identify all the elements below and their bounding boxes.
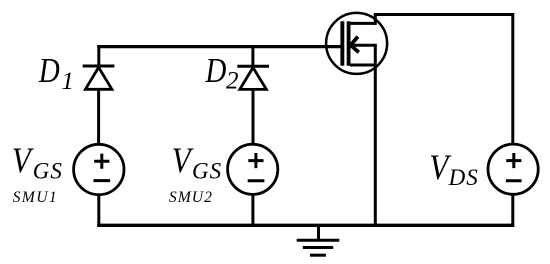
ground bbox=[297, 226, 340, 255]
wire: D1 top branch bbox=[97, 45, 100, 67]
voltage source VGS SMU1 bbox=[74, 144, 124, 194]
wire: MOSFET source vertical bbox=[374, 45, 377, 226]
voltage source VGS SMU2 bbox=[228, 144, 278, 194]
svg-text:GS: GS bbox=[192, 158, 222, 183]
wire: top drain rail bbox=[374, 13, 513, 16]
svg-text:SMU2: SMU2 bbox=[169, 189, 213, 206]
M1 gate plate bbox=[340, 21, 344, 65]
diode D1 bbox=[83, 66, 115, 89]
wire: VDS to bottom rail bbox=[511, 194, 514, 226]
wire: D2 to source SMU2 bbox=[252, 89, 255, 145]
voltage source VDS bbox=[488, 144, 538, 194]
M1 body circle bbox=[326, 13, 387, 74]
svg-text:2: 2 bbox=[226, 67, 239, 94]
svg-text:D: D bbox=[204, 50, 226, 89]
M1 drain riser bbox=[374, 15, 377, 25]
wire: D2 top branch bbox=[251, 45, 254, 67]
wire: VDS top riser bbox=[511, 13, 514, 145]
M1 channel line bbox=[347, 21, 351, 65]
wire: D1 to source SMU1 bbox=[97, 89, 100, 145]
svg-text:V: V bbox=[12, 141, 34, 181]
svg-text:DS: DS bbox=[448, 165, 479, 190]
svg-text:V: V bbox=[172, 141, 194, 181]
wire: SMU1 to bottom rail bbox=[97, 195, 100, 227]
diode D2 bbox=[237, 66, 269, 89]
transistor M1 (MOSFET) bbox=[326, 13, 387, 74]
svg-text:GS: GS bbox=[33, 158, 63, 183]
label D2 bbox=[204, 50, 238, 94]
svg-text:1: 1 bbox=[61, 68, 74, 95]
label D1 bbox=[38, 50, 74, 95]
M1 body arrow line bbox=[353, 44, 377, 47]
M1 drain line bbox=[350, 22, 375, 25]
label VGS SMU1 bbox=[12, 141, 63, 206]
wire: gate rail (top-left horizontal) bbox=[97, 45, 341, 48]
M1 source line bbox=[350, 64, 375, 67]
M1 arrowhead bbox=[351, 37, 359, 53]
wire: bottom rail bbox=[97, 224, 514, 227]
wire: SMU2 to bottom rail bbox=[251, 194, 254, 226]
label VDS bbox=[429, 148, 478, 190]
label VGS SMU2 bbox=[169, 141, 222, 206]
svg-text:D: D bbox=[38, 50, 60, 89]
svg-text:SMU1: SMU1 bbox=[13, 189, 58, 206]
